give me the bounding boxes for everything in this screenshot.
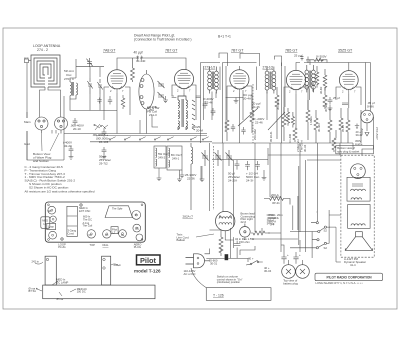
svg-text:40 μμf: 40 μμf	[134, 51, 143, 55]
svg-text:20-103: 20-103	[99, 140, 109, 144]
rotated value labels right section	[276, 99, 379, 140]
resistor 200-A	[264, 197, 290, 205]
cap (-400V 32-20	[69, 146, 74, 159]
ballast resistor vertical	[219, 234, 223, 256]
front view callouts	[35, 262, 119, 296]
svg-text:7B7 GT: 7B7 GT	[231, 49, 244, 53]
value label	[267, 213, 278, 225]
svg-text:270 - 4: 270 - 4	[64, 77, 74, 81]
label .00 400V 20-M3	[96, 137, 110, 145]
AC plug	[186, 254, 205, 268]
IF transformer 273-1/3	[265, 67, 276, 94]
svg-text:30-463: 30-463	[317, 123, 321, 132]
svg-text:spkr plug & socket: spkr plug & socket	[337, 150, 359, 154]
svg-text:30-4R: 30-4R	[319, 87, 323, 94]
IF transformer 273-1/2	[208, 67, 219, 94]
svg-text:model T-126: model T-126	[134, 269, 161, 274]
dropper wires from schematic to lamp section	[201, 143, 340, 252]
ground	[180, 175, 185, 178]
svg-text:EXT OSC: EXT OSC	[79, 209, 90, 213]
svg-text:34-ms: 34-ms	[267, 221, 275, 225]
value label	[158, 152, 170, 159]
output transformer	[347, 177, 370, 201]
svg-text:274 - 2: 274 - 2	[37, 48, 48, 52]
corner screws	[48, 204, 143, 241]
value label	[333, 96, 375, 108]
svg-text:30-440: 30-440	[136, 59, 146, 63]
osc padder trimmers	[158, 81, 165, 99]
svg-text:7B5 GT: 7B5 GT	[285, 49, 298, 53]
svg-text:The Coil: The Coil	[83, 224, 93, 228]
svg-text:1 MEG: 1 MEG	[309, 116, 313, 125]
svg-text:0!-86: 0!-86	[367, 104, 374, 108]
wire coil to V1 grid	[64, 59, 117, 134]
extra caps mid right	[231, 124, 246, 135]
svg-text:B+1 T+1: B+1 T+1	[218, 35, 231, 39]
svg-text:05-05: 05-05	[341, 124, 345, 132]
value label	[283, 279, 298, 286]
resistor bank right section	[225, 87, 361, 152]
svg-text:273-1/2: 273-1/2	[205, 66, 216, 70]
value label	[311, 82, 323, 94]
value label	[99, 155, 112, 166]
label 500V cen	[246, 172, 260, 183]
value label	[203, 93, 264, 124]
legend text block	[25, 165, 95, 193]
svg-text:30-34: 30-34	[303, 144, 307, 152]
switch contacts row (band selector)	[94, 124, 108, 130]
svg-text:200-A: 200-A	[271, 193, 279, 197]
wafer switch box BC Osc	[167, 146, 182, 170]
value label	[171, 153, 183, 160]
value label	[70, 124, 84, 132]
svg-text:22-36: 22-36	[187, 176, 195, 180]
speaker plug circle	[351, 164, 366, 179]
value label	[355, 130, 363, 146]
svg-text:30-31: 30-31	[210, 261, 218, 265]
oscillator / ant coil 270-4 label	[64, 69, 74, 81]
V1 cathode drops	[104, 85, 361, 143]
extra rotated labels mid right	[253, 129, 292, 143]
wafer switch box 5W Osc	[154, 146, 166, 168]
svg-text:22-46: 22-46	[255, 120, 263, 124]
svg-text:DIAL: DIAL	[103, 243, 109, 247]
battery plug top view	[282, 265, 310, 279]
grid hoop IFT1 to V3	[219, 53, 371, 71]
S2 switch lower	[290, 239, 329, 249]
svg-text:20-46: 20-46	[252, 105, 260, 109]
long vertical feed wires around IF cans	[201, 63, 286, 144]
text block C500	[268, 213, 283, 227]
svg-text:+: +	[287, 253, 289, 257]
svg-text:+00V: +00V	[360, 128, 364, 135]
tube V6 rectifier socket	[361, 110, 374, 123]
svg-text:0.1-400: 0.1-400	[288, 133, 292, 143]
ground near V2	[163, 96, 168, 103]
tube V4 7B5 GT	[286, 70, 305, 93]
svg-text:Loop: Loop	[48, 225, 54, 229]
svg-text:LT: LT	[44, 222, 47, 226]
svg-text:25 μμf: 25 μμf	[294, 54, 303, 58]
electrolytic cap right of trimmers	[235, 160, 260, 170]
wires bottom middle connecting	[205, 197, 303, 265]
value label	[184, 269, 196, 276]
label bottom view of wave plug and socket	[33, 152, 52, 163]
svg-text:3P-41: 3P-41	[272, 201, 280, 205]
speaker label	[344, 257, 366, 267]
svg-text:Bottom view of: Bottom view of	[337, 146, 355, 150]
svg-text:05 30-41: 05 30-41	[269, 131, 273, 142]
bracket detail circles	[46, 258, 105, 269]
svg-text:41-4: 41-4	[350, 263, 356, 267]
wire under V3 with ground	[226, 90, 244, 120]
value label	[159, 166, 202, 179]
svg-text:30-34: 30-34	[264, 269, 272, 273]
svg-text:6A: 6A	[89, 233, 92, 237]
top caption note	[134, 34, 231, 42]
brown lead note	[241, 212, 256, 224]
svg-text:PLUG: PLUG	[134, 245, 141, 249]
PILOT RADIO CORPORATION box	[315, 273, 383, 281]
value label	[63, 141, 72, 149]
svg-text:30-467: 30-467	[324, 103, 328, 112]
value label	[337, 146, 359, 153]
trimmer capacitors row2	[202, 150, 233, 166]
ballast tube circle	[216, 211, 235, 230]
svg-text:LT: LT	[113, 230, 116, 234]
svg-text:20-4A: 20-4A	[243, 96, 251, 100]
svg-text:242 in: 242 in	[32, 260, 40, 264]
svg-text:50L: 50L	[135, 227, 140, 231]
chassis top view labels	[48, 206, 140, 237]
value label	[147, 105, 157, 112]
tube V1 7A8 GT	[107, 70, 126, 93]
svg-text:+: +	[299, 253, 301, 257]
svg-text:271-3: 271-3	[149, 113, 157, 117]
chassis top view tube sockets	[47, 204, 143, 241]
svg-text:(clockwise) position: (clockwise) position	[217, 280, 241, 284]
resistor R 30-440	[131, 58, 135, 82]
volume control resistor	[286, 108, 294, 128]
svg-text:7B7 GT: 7B7 GT	[165, 49, 178, 53]
svg-text:DC LAMP: DC LAMP	[56, 280, 68, 284]
grid cap wire V1 to V2 with coupling cap	[117, 56, 186, 70]
resistor right of dial lamp	[251, 231, 270, 235]
svg-text:BT 5A: BT 5A	[29, 289, 37, 293]
svg-text:PLUG: PLUG	[58, 245, 65, 249]
label 50uuf 25V elec 24-20	[228, 172, 241, 183]
volume control rotated label	[296, 139, 307, 152]
trimmer T upper	[86, 58, 92, 67]
push button coil assembly 271-3	[178, 96, 195, 130]
oval osc section bottom lead and label	[140, 113, 158, 134]
T-126 note box	[206, 288, 271, 301]
svg-text:249-1: 249-1	[172, 156, 180, 160]
svg-text:32-20: 32-20	[64, 144, 72, 148]
electrolytic 50uuf 25V 29-7	[102, 147, 107, 159]
svg-text:The DC: The DC	[83, 217, 92, 221]
screen RC over V5	[306, 57, 327, 63]
svg-text:249-2: 249-2	[158, 155, 166, 159]
switch arms above wafer boxes	[109, 137, 208, 141]
S2 switch upper	[311, 212, 330, 233]
svg-text:22-46: 22-46	[205, 100, 213, 104]
svg-text:Pilot: Pilot	[140, 256, 157, 265]
value label	[235, 237, 254, 244]
svg-text:300-300: 300-300	[276, 99, 280, 110]
antenna terminal	[25, 59, 29, 63]
svg-text:7A8 GT: 7A8 GT	[103, 49, 116, 53]
svg-text:Main: Main	[24, 120, 31, 124]
svg-text:6C: 6C	[105, 233, 108, 237]
twin line cord ballast note	[177, 233, 190, 243]
svg-text:+00V 34-2: +00V 34-2	[375, 127, 379, 140]
chassis top view bottom labels	[58, 242, 141, 249]
svg-text:battery plug: battery plug	[283, 281, 298, 285]
cap .00(0)25	[102, 128, 107, 137]
value label	[29, 260, 122, 301]
label 25-300V 22-36	[185, 173, 196, 180]
svg-text:The Spkr: The Spkr	[112, 207, 123, 211]
svg-text:22-6: 22-6	[241, 220, 247, 224]
line cord resistor label	[209, 259, 218, 266]
chassis front view	[43, 256, 155, 299]
svg-text:24-3†: 24-3†	[246, 178, 254, 182]
svg-text:6E: 6E	[121, 233, 124, 237]
svg-text:20-10: 20-10	[73, 127, 81, 131]
grounds row2	[157, 178, 162, 181]
tube V3 7B7 GT	[230, 70, 249, 93]
line cord curve to chassis	[191, 268, 206, 288]
speaker plug note	[336, 146, 374, 154]
dotted pilot light connection	[214, 84, 254, 210]
screen resistors upper	[315, 66, 327, 91]
svg-text:A wire: A wire	[355, 142, 363, 146]
side box MED LT	[41, 217, 50, 229]
svg-text:TOP: TOP	[90, 243, 96, 247]
tuning gang section B	[97, 79, 103, 94]
svg-text:S2: S2	[324, 229, 328, 233]
grounds under cap row	[177, 170, 266, 182]
value label	[271, 193, 280, 205]
ground	[200, 179, 205, 182]
svg-text:150 ohm: 150 ohm	[239, 240, 251, 244]
svg-text:5W: 5W	[48, 209, 52, 213]
value label	[248, 257, 272, 273]
svg-text:MED: MED	[42, 219, 48, 223]
svg-text:(Connection to Trafl Shown in: (Connection to Trafl Shown in Dotted )	[134, 38, 191, 42]
cap near plug	[206, 228, 248, 262]
tube V5 50L6 GT	[339, 71, 358, 94]
speaker cone	[345, 232, 372, 251]
svg-text:273-1Q: 273-1Q	[263, 66, 274, 70]
loop antenna 274-2 spiral	[31, 55, 60, 87]
cap 25uuf near V4	[301, 57, 304, 61]
field coil	[348, 205, 370, 229]
pin number labels under tubes	[110, 89, 356, 94]
rectifier feed wires	[362, 63, 374, 156]
wave plug socket (bottom view) left	[35, 117, 48, 133]
svg-text:0-860: 0-860	[316, 58, 324, 62]
tube V2 7B7 GT	[174, 69, 193, 92]
caps under V1	[96, 95, 207, 136]
on-off switch	[246, 260, 263, 265]
label .00025 20-M	[191, 125, 203, 132]
svg-text:250-30M: 250-30M	[253, 129, 257, 140]
switch position note	[217, 275, 243, 285]
dial lamp	[240, 224, 251, 238]
svg-text:40 +: 40 +	[248, 257, 254, 261]
svg-text:Ballast: Ballast	[177, 238, 186, 242]
cap .005 400V 20-10	[73, 118, 78, 126]
wave plug socket (bottom view) right	[55, 117, 68, 134]
svg-text:25 μf: 25 μf	[333, 96, 340, 100]
svg-text:All resistors are 1/2 watt unl: All resistors are 1/2 watt unless otherw…	[25, 189, 95, 193]
filter electrolytics	[281, 252, 301, 264]
label PB coil 271-3	[147, 106, 160, 117]
output interstage transformer windings	[305, 65, 315, 92]
svg-text:242 in: 242 in	[114, 263, 122, 267]
line cord resistor block (dark)	[225, 254, 229, 260]
svg-text:100 DC: 100 DC	[77, 290, 86, 294]
cathode cap below rectifier	[355, 124, 369, 137]
oscillator section oval	[139, 70, 154, 113]
wires around S2	[290, 205, 341, 262]
antenna lead wires	[27, 60, 61, 160]
svg-text:300-300: 300-300	[311, 82, 315, 92]
Pilot logo box	[137, 255, 161, 265]
tuning gang section A	[87, 78, 93, 94]
svg-text:Ø ma: Ø ma	[57, 297, 64, 301]
leader line ballast note	[196, 234, 214, 237]
wires near volume area	[252, 196, 298, 239]
svg-text:20-M: 20-M	[196, 128, 203, 132]
value label	[42, 219, 48, 227]
osc coil vertical winding	[191, 143, 193, 210]
leader lines from label to sockets	[42, 133, 60, 151]
svg-text:Cond: Cond	[68, 231, 75, 235]
svg-text:29-7(2: 29-7(2	[99, 162, 108, 166]
loop antenna 274-2 label	[24, 44, 61, 146]
svg-text:282A /7: 282A /7	[183, 215, 194, 219]
ant coil 270-4 windings	[70, 78, 78, 99]
svg-text:PILOT RADIO CORPORATION: PILOT RADIO CORPORATION	[327, 275, 373, 279]
caps between V2 and IFT1	[172, 96, 216, 116]
speaker dashed enclosure	[341, 155, 374, 257]
svg-text:T - 126: T - 126	[213, 294, 224, 298]
svg-text:24-20†: 24-20†	[228, 178, 238, 182]
svg-text:LONG ISLAND CITY 1, N.Y. U.S.: LONG ISLAND CITY 1, N.Y. U.S.A. • • • •	[316, 281, 363, 285]
AVC diagonal wires	[238, 108, 285, 130]
chassis top view outline	[45, 202, 145, 242]
main bus B1	[27, 112, 353, 165]
svg-text:S2: S2	[324, 246, 328, 250]
caps near V5	[328, 97, 348, 111]
svg-text:253: 253	[149, 108, 154, 112]
svg-text:35Z5 GT: 35Z5 GT	[338, 49, 353, 53]
